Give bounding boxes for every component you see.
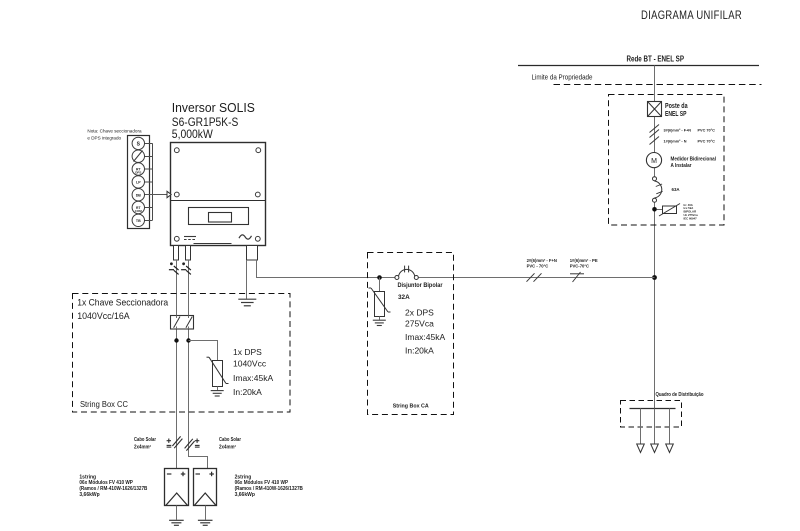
svg-text:Imax:45kA: Imax:45kA: [233, 373, 273, 383]
boundary dashed line Limite da Propriedade: [554, 84, 762, 86]
svg-text:PVC 70°C: PVC 70°C: [698, 140, 716, 144]
fuse link with diagonal (seccionador fusivel): [657, 204, 681, 217]
legend circle 4: [132, 176, 144, 188]
meter M (Medidor Bidirecional): [646, 153, 661, 168]
svg-text:In:20kA: In:20kA: [233, 387, 262, 397]
svg-text:Limite da Propriedade: Limite da Propriedade: [532, 73, 593, 82]
node: junction dot AC line / feeder: [652, 275, 657, 280]
svg-text:1040Vcc/16A: 1040Vcc/16A: [77, 311, 130, 321]
svg-text:M: M: [651, 158, 657, 165]
svg-text:IEC 60947: IEC 60947: [684, 216, 698, 220]
legend circle 1: [132, 137, 144, 149]
feeder circuit 3: [666, 409, 674, 453]
svg-text:2#(6)mm² - F+N: 2#(6)mm² - F+N: [527, 258, 557, 263]
wire AC drop to AC line: [256, 260, 258, 278]
legend bus wire: [152, 143, 154, 220]
wire: Rede BT bus line: [518, 65, 759, 67]
inverter divider: [171, 200, 266, 202]
node: junction dot AC DPS: [377, 275, 382, 280]
PV module string 1: [165, 469, 189, 506]
cable mark: double slash (3F+N): [650, 125, 660, 138]
wire AC ground from inverter: [246, 260, 248, 299]
svg-text:2x4mm²: 2x4mm²: [134, 445, 151, 451]
svg-text:In:20kA: In:20kA: [405, 346, 434, 356]
svg-text:Imax:45kA: Imax:45kA: [405, 332, 445, 342]
cable mark: double slash F+N on AC line: [527, 273, 542, 281]
svg-text:Rede BT - ENEL SP: Rede BT - ENEL SP: [627, 55, 685, 64]
inverter DC terminal 1: [174, 246, 179, 261]
ground DPS CA: [373, 320, 386, 325]
node: junction dot at fuse-link: [652, 207, 657, 212]
cable mark string1 (double slash +/-): [167, 436, 183, 448]
connector mark string 2: [181, 262, 191, 274]
ground DPS CC: [211, 391, 224, 396]
svg-text:PVC 70°C: PVC 70°C: [698, 129, 716, 133]
svg-text:PVC-70°C: PVC-70°C: [570, 263, 589, 268]
wire: main vertical feeder from Rede BT to Quadro: [654, 66, 656, 409]
legend strip box: [128, 136, 150, 229]
cable mark string2 (double slash +/-): [185, 439, 200, 451]
svg-text:5,000kW: 5,000kW: [172, 127, 214, 141]
enclosure Quadro de Distribuicao (dashed): [621, 401, 682, 428]
inverter AC terminal: [247, 246, 258, 261]
svg-text:ENEL SP: ENEL SP: [665, 109, 687, 118]
svg-text:63A: 63A: [672, 187, 681, 192]
wire: AC line from inverter to feeder: [256, 277, 655, 279]
svg-text:06x Módulos FV 410 WP: 06x Módulos FV 410 WP: [235, 480, 289, 486]
legend circle 6: [132, 201, 144, 213]
DPS CA (varistor): [369, 278, 391, 320]
wire DC string 2: [189, 260, 208, 469]
svg-text:String Box CA: String Box CA: [393, 404, 429, 410]
label fuse data (tiny): [684, 203, 699, 221]
cable mark: single slash (N): [650, 137, 660, 145]
inverter U1 body: [171, 143, 266, 246]
wire DC string 1: [176, 260, 178, 469]
svg-text:COM: COM: [135, 209, 143, 213]
node: terminal circle above breaker: [653, 177, 657, 181]
svg-text:DIAGRAMA UNIFILAR: DIAGRAMA UNIFILAR: [641, 10, 742, 22]
svg-text:Medidor Bidirecional: Medidor Bidirecional: [671, 157, 717, 163]
transformer/pole box with X: [648, 102, 662, 117]
ground inverter AC: [238, 299, 256, 306]
svg-text:275Vca: 275Vca: [405, 319, 434, 329]
svg-text:Nota: Chave seccionadora: Nota: Chave seccionadora: [87, 128, 142, 133]
feeder circuit 1: [637, 409, 645, 453]
inverter DC terminal 2: [186, 246, 191, 261]
svg-text:A Instalar: A Instalar: [671, 163, 692, 169]
enclosure Poste da ENEL SP (dashed): [609, 95, 725, 226]
node: junction dot string1: [174, 338, 178, 342]
node: junction dot string2: [186, 338, 190, 342]
svg-text:LP: LP: [136, 181, 141, 185]
svg-text:3,66kWp: 3,66kWp: [79, 492, 99, 498]
svg-text:06x Módulos FV 410 WP: 06x Módulos FV 410 WP: [79, 480, 133, 486]
svg-text:e DPS integrado: e DPS integrado: [87, 136, 121, 141]
svg-text:PVC - 70°C: PVC - 70°C: [527, 263, 549, 268]
enclosure String Box CA (dashed): [368, 253, 454, 415]
svg-text:1040Vcc: 1040Vcc: [233, 359, 267, 369]
enclosure String Box CC (dashed): [73, 294, 291, 413]
svg-text:Disjuntor Bipolar: Disjuntor Bipolar: [398, 282, 443, 289]
node: terminal circle below breaker: [653, 198, 657, 202]
svg-text:1x DPS: 1x DPS: [233, 347, 262, 357]
label string 2 data: [235, 474, 304, 498]
label string 1 data: [79, 474, 147, 498]
inverter bottom thin line: [194, 243, 232, 245]
svg-text:DB: DB: [136, 193, 142, 197]
DPS CC (varistor): [207, 357, 229, 390]
svg-text:1x Chave Seccionadora: 1x Chave Seccionadora: [77, 298, 168, 308]
feeder circuit 2: [651, 409, 659, 453]
svg-text:3#(6)mm² - F+N: 3#(6)mm² - F+N: [664, 129, 692, 133]
svg-text:2x4mm²: 2x4mm²: [219, 445, 236, 451]
svg-text:Quadro de Distribuição: Quadro de Distribuição: [656, 392, 704, 398]
svg-text:2x DPS: 2x DPS: [405, 308, 434, 318]
legend arrow wire to inverter: [145, 194, 168, 196]
circuit breaker Disjuntor Bipolar 32A: [395, 266, 418, 283]
wire module2 to ground: [205, 506, 207, 520]
svg-text:DPS: DPS: [135, 170, 141, 174]
wire to DPS CC: [189, 341, 218, 361]
busbar: [630, 408, 676, 410]
svg-text:1#(6)mm² - PE: 1#(6)mm² - PE: [570, 258, 598, 263]
legend circle 3: [132, 163, 144, 175]
ground module2: [198, 520, 213, 525]
DC switch (chave seccionadora): [171, 316, 194, 330]
inverter DC symbol: [184, 237, 196, 240]
svg-text:3,66kWp: 3,66kWp: [235, 492, 255, 498]
wire module1 to ground: [176, 506, 178, 520]
svg-text:32A: 32A: [398, 294, 410, 301]
svg-text:Cabo Solar: Cabo Solar: [134, 437, 156, 443]
PV module string 2: [194, 469, 217, 506]
inverter AC sine symbol: [239, 235, 252, 239]
breaker 63A (arc): [650, 181, 663, 198]
legend stubs: [145, 144, 153, 221]
inverter display: [189, 208, 249, 225]
cable mark: PE slash with bar: [570, 272, 584, 282]
ground module1: [169, 520, 184, 525]
svg-text:String Box CC: String Box CC: [80, 400, 128, 409]
svg-text:1#(6)mm² - N: 1#(6)mm² - N: [664, 140, 687, 144]
inverter screws: [174, 148, 260, 241]
svg-text:Inversor SOLIS: Inversor SOLIS: [172, 100, 255, 115]
connector mark string 1: [169, 262, 179, 274]
legend circle 5: [132, 189, 144, 201]
svg-text:TB: TB: [136, 219, 141, 223]
legend circle 2 (switch blade): [132, 150, 144, 162]
svg-text:Cabo Solar: Cabo Solar: [219, 437, 241, 443]
legend circle 7: [132, 214, 144, 226]
